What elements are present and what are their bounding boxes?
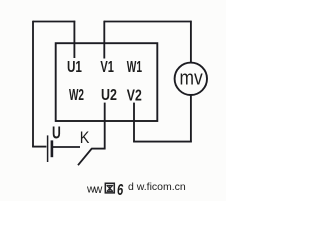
wire: battery to switch xyxy=(53,146,81,148)
wire: top-right horizontal segment xyxy=(104,21,192,23)
svg-text:d w.ficom.cn: d w.ficom.cn xyxy=(128,181,186,193)
svg-text:mv: mv xyxy=(180,66,204,88)
caption hanzi tu (figure) drawn glyph xyxy=(105,183,114,193)
wire: top-left horizontal segment xyxy=(33,21,75,23)
wire: left vertical of supply loop xyxy=(32,21,34,148)
wire: U2 vertical lead xyxy=(104,103,106,150)
svg-text:W2: W2 xyxy=(69,86,84,104)
battery plate short (negative) xyxy=(51,140,54,157)
svg-text:w: w xyxy=(93,184,103,196)
wire: battery left lead xyxy=(32,146,46,148)
wire: U1 terminal drop xyxy=(73,21,75,58)
svg-text:U1: U1 xyxy=(67,57,82,75)
battery plate long (positive) xyxy=(47,135,49,162)
svg-text:6: 6 xyxy=(117,181,124,198)
wire: bottom horizontal to V2 xyxy=(133,141,191,143)
svg-text:U2: U2 xyxy=(101,87,117,105)
terminal box xyxy=(56,43,158,121)
switch K blade xyxy=(78,149,92,166)
svg-text:V1: V1 xyxy=(100,58,114,75)
svg-text:W1: W1 xyxy=(127,58,143,76)
wire: V2 vertical lead xyxy=(133,103,135,143)
wire: meter top lead xyxy=(190,21,192,64)
svg-text:U: U xyxy=(52,123,61,143)
wire: V1 terminal drop xyxy=(103,21,105,59)
svg-text:K: K xyxy=(80,129,90,147)
svg-text:V2: V2 xyxy=(127,87,142,105)
wire: meter bottom lead xyxy=(190,95,192,143)
wire: switch right lead xyxy=(91,148,105,150)
millivoltmeter mV body xyxy=(175,63,207,95)
